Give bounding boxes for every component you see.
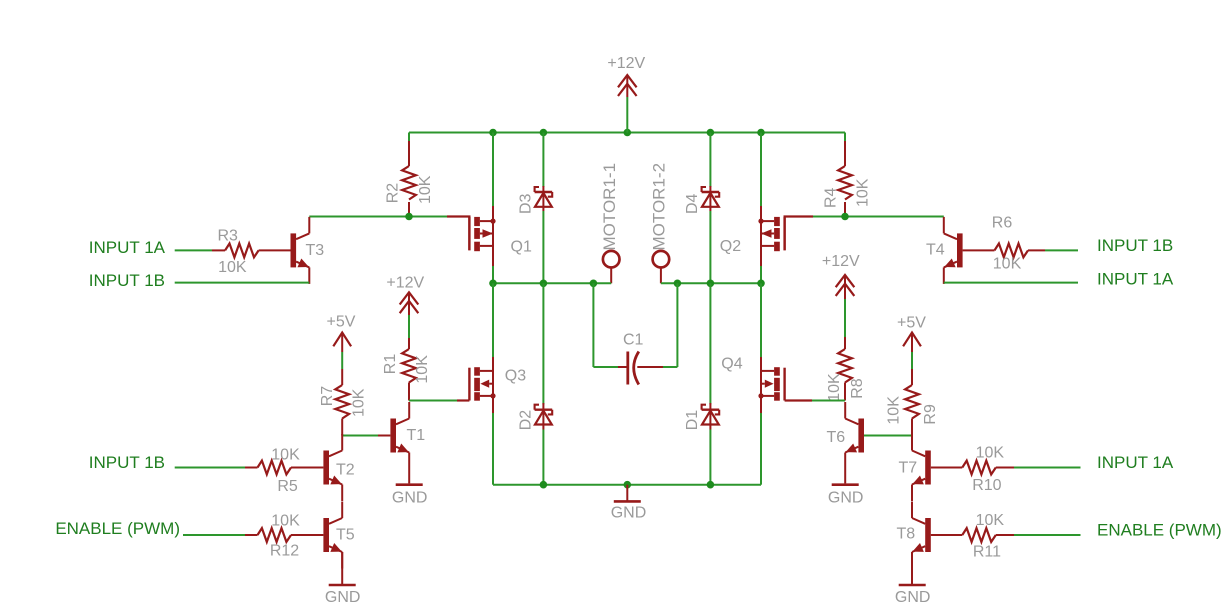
svg-text:INPUT 1A: INPUT 1A [1097, 270, 1174, 289]
svg-text:GND: GND [392, 489, 428, 506]
svg-text:10K: 10K [886, 396, 903, 425]
svg-text:T3: T3 [306, 242, 325, 259]
svg-text:GND: GND [828, 489, 864, 506]
svg-text:R12: R12 [270, 543, 299, 560]
svg-text:R5: R5 [277, 478, 298, 495]
svg-text:D4: D4 [684, 193, 701, 214]
svg-text:GND: GND [325, 589, 361, 606]
svg-text:10K: 10K [351, 388, 368, 417]
svg-text:INPUT 1B: INPUT 1B [89, 271, 165, 290]
svg-text:INPUT 1B: INPUT 1B [1097, 236, 1173, 255]
svg-text:INPUT 1B: INPUT 1B [89, 453, 165, 472]
svg-text:10K: 10K [976, 512, 1005, 529]
svg-text:MOTOR1-2: MOTOR1-2 [650, 163, 669, 251]
svg-text:R6: R6 [992, 214, 1013, 231]
svg-text:Q3: Q3 [505, 368, 526, 385]
svg-text:10K: 10K [218, 259, 247, 276]
svg-text:T2: T2 [336, 462, 355, 479]
svg-text:MOTOR1-1: MOTOR1-1 [600, 163, 619, 251]
svg-text:T1: T1 [407, 427, 426, 444]
svg-text:+12V: +12V [822, 253, 860, 270]
svg-text:D1: D1 [684, 410, 701, 431]
svg-text:C1: C1 [623, 332, 644, 349]
svg-text:10K: 10K [993, 255, 1022, 272]
svg-text:+5V: +5V [327, 314, 356, 331]
svg-text:R4: R4 [823, 187, 840, 208]
svg-text:R10: R10 [972, 477, 1001, 494]
svg-text:ENABLE (PWM): ENABLE (PWM) [55, 519, 180, 538]
svg-text:R9: R9 [922, 404, 939, 425]
svg-text:Q2: Q2 [720, 238, 741, 255]
svg-text:R1: R1 [382, 354, 399, 375]
svg-text:R7: R7 [319, 386, 336, 407]
svg-text:10K: 10K [854, 178, 871, 207]
svg-text:ENABLE (PWM): ENABLE (PWM) [1097, 520, 1222, 539]
svg-text:10K: 10K [414, 355, 431, 384]
svg-text:10K: 10K [826, 373, 843, 402]
svg-text:GND: GND [611, 505, 647, 522]
svg-text:+12V: +12V [607, 55, 645, 72]
svg-text:Q4: Q4 [721, 355, 742, 372]
svg-text:D2: D2 [517, 410, 534, 431]
svg-text:10K: 10K [417, 175, 434, 204]
svg-text:Q1: Q1 [511, 238, 532, 255]
svg-text:+12V: +12V [386, 275, 424, 292]
svg-text:R3: R3 [217, 227, 238, 244]
svg-text:10K: 10K [271, 446, 300, 463]
svg-text:T8: T8 [897, 526, 916, 543]
svg-text:R11: R11 [973, 544, 1001, 561]
svg-text:10K: 10K [976, 445, 1005, 462]
svg-text:INPUT 1A: INPUT 1A [1097, 453, 1174, 472]
svg-text:INPUT 1A: INPUT 1A [89, 238, 166, 257]
svg-text:R8: R8 [849, 378, 866, 399]
svg-text:T6: T6 [827, 429, 846, 446]
svg-text:T7: T7 [899, 459, 918, 476]
svg-text:10K: 10K [271, 513, 300, 530]
svg-text:T4: T4 [926, 242, 945, 259]
svg-text:GND: GND [895, 589, 931, 606]
svg-text:T5: T5 [336, 527, 355, 544]
svg-text:+5V: +5V [897, 315, 926, 332]
svg-text:R2: R2 [384, 183, 401, 204]
svg-text:D3: D3 [517, 193, 534, 214]
